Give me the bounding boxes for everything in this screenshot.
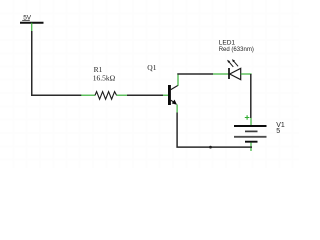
svg-text:Q1: Q1 bbox=[147, 63, 156, 72]
Q1 emitter pin stub bbox=[176, 105, 178, 113]
V1 negative pin stub bbox=[250, 143, 252, 152]
svg-text:16.5kΩ: 16.5kΩ bbox=[93, 73, 116, 82]
resistor R1 bbox=[93, 65, 117, 99]
junction dot on bottom wire bbox=[209, 146, 212, 149]
LED LED1 bbox=[219, 39, 254, 79]
transistor Q1 (NPN) bbox=[147, 63, 178, 105]
wire from 5V rail down and right to R1 bbox=[32, 31, 82, 95]
wire from Q1 emitter down and right to V1 negative bbox=[177, 113, 252, 148]
wire from LED1 down to V1 bbox=[250, 74, 252, 118]
LED1 left (cathode) pin bbox=[213, 73, 229, 75]
resistor R1 left pin bbox=[81, 94, 95, 96]
svg-text:5: 5 bbox=[276, 128, 280, 135]
svg-text:Red (633nm): Red (633nm) bbox=[219, 46, 254, 53]
LED1 right (anode) pin bbox=[241, 73, 252, 75]
resistor R1 right pin bbox=[117, 94, 127, 96]
Q1 base pin bbox=[163, 94, 168, 96]
background grid bbox=[0, 0, 299, 168]
V1 positive pin stub with + mark bbox=[245, 115, 251, 125]
wire from Q1 collector to LED1 bbox=[178, 73, 213, 76]
battery V1 5V bbox=[234, 122, 285, 142]
pin stub of 5V rail bbox=[31, 23, 33, 31]
wire from R1 to Q1 base bbox=[127, 94, 163, 96]
svg-text:5V: 5V bbox=[23, 15, 32, 22]
Q1 collector pin stub bbox=[177, 74, 179, 86]
power rail VCC 5V bbox=[20, 15, 44, 23]
